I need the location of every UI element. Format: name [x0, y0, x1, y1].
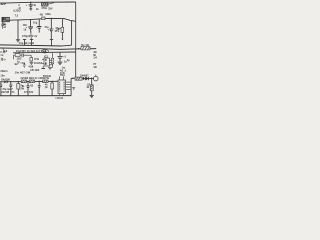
node junction x52: [51, 81, 52, 82]
node junction net A x18: [17, 20, 18, 21]
svg-text:47n 63V: 47n 63V: [24, 91, 34, 94]
svg-text:10µ 4Ω 1n Ω: 10µ 4Ω 1n Ω: [19, 42, 34, 45]
ground GND4: [58, 61, 63, 63]
wire rail A right segment: [62, 44, 72, 47]
wire bus rail C: [13, 51, 76, 54]
svg-text:TDA: TDA: [60, 74, 65, 77]
svg-text:10µ: 10µ: [33, 22, 38, 25]
capacitor C8 in Zobel row: [21, 53, 23, 57]
diode D1 on bottom wire: [4, 80, 7, 83]
svg-text:4k7: 4k7: [56, 28, 61, 31]
wire vertical to ground from net A: [17, 20, 19, 39]
wire vertical x71 right of IC1: [70, 78, 72, 95]
resistor R12 vertical in x52.6 wire: [52, 58, 54, 64]
svg-text:2x5Ω6 3Ω9 2x 1N41: 2x5Ω6 3Ω9 2x 1N41: [21, 77, 45, 80]
resistor R3 in Zobel row: [13, 54, 15, 56]
wire to connector: [89, 77, 94, 79]
wire vertical x52.6 feeding IC2: [52, 52, 54, 68]
ground GND1: [16, 39, 20, 41]
capacitor C1 from top bus: [30, 2, 32, 4]
svg-text:100: 100: [23, 24, 28, 27]
capacitor C11 left edge down: [0, 82, 2, 85]
svg-text:47n: 47n: [10, 91, 15, 94]
wire main horizontal net A: [10, 18, 76, 21]
svg-text:47Ω: 47Ω: [44, 77, 49, 80]
wire stub bus B down left: [2, 48, 4, 50]
wire pins right of IC2: [50, 59, 53, 61]
resistor R6 on bottom wire: [21, 80, 26, 83]
resistor R11 vertical hatched: [90, 85, 93, 91]
arrow terminal below R2: [61, 39, 63, 41]
resistor R5 vertical: [17, 82, 19, 84]
wire down from junction: [91, 78, 93, 84]
svg-text:25V: 25V: [48, 8, 53, 10]
wire bus rail A: [0, 45, 62, 46]
svg-text:10n 4Ω7 /2W: 10n 4Ω7 /2W: [15, 71, 31, 74]
wire stubs below IC1: [59, 94, 61, 96]
svg-text:1A: 1A: [43, 50, 46, 53]
svg-text:1/4: 1/4: [93, 57, 97, 60]
ground GND6: [90, 94, 94, 96]
diode D3: [83, 77, 86, 80]
svg-text:4n7: 4n7: [14, 63, 19, 66]
svg-text:7,5: 7,5: [15, 14, 19, 17]
ground GND5 small: [72, 87, 75, 89]
capacitor C10 x60: [59, 52, 61, 56]
wire output net: [71, 77, 75, 79]
capacitor C5 to rail: [30, 38, 33, 40]
module K1 dark box: [2, 17, 10, 22]
svg-text:(Ω: (Ω: [45, 87, 48, 89]
svg-text:4h: 4h: [45, 84, 48, 87]
svg-text:2Ω/1W: 2Ω/1W: [1, 92, 9, 94]
svg-text:10n/63: 10n/63: [34, 62, 43, 65]
wire top supply bus: [0, 2, 76, 3]
scan speckle texture: [2, 0, 98, 99]
svg-text:1N4148: 1N4148: [1, 78, 11, 81]
connector K2 circle: [94, 76, 99, 81]
svg-text:0µ47: 0µ47: [7, 88, 13, 91]
capacitor C12: [10, 82, 12, 85]
svg-text:4µ: 4µ: [67, 59, 70, 62]
wire bottom bus: [0, 95, 71, 97]
svg-text:4Ω: 4Ω: [40, 14, 43, 17]
resistor R1 hatched box on top: [41, 3, 48, 6]
wire vertical x51 with capacitor C7: [50, 19, 52, 29]
wire stubs above IC1: [59, 76, 61, 80]
svg-text:1n: 1n: [0, 54, 3, 57]
wire after R10: [81, 78, 84, 80]
node junction x18.3: [18, 81, 19, 82]
node junction net A x64: [63, 18, 64, 19]
svg-text:0,22Ω: 0,22Ω: [13, 10, 20, 13]
svg-text:=41011: =41011: [55, 97, 64, 100]
capacitor C13: [27, 81, 29, 85]
svg-text:100n: 100n: [45, 13, 51, 16]
svg-text:22k/m: 22k/m: [0, 70, 7, 73]
resistor R2 vertical: [61, 19, 63, 28]
ground GND3: [49, 66, 51, 68]
svg-text:1N4007: 1N4007: [80, 74, 89, 77]
svg-text:12V: 12V: [0, 2, 7, 6]
capacitor C2 electrolytic: [29, 20, 31, 27]
resistor R4 vertical: [30, 55, 32, 57]
ground GND2: [29, 61, 33, 63]
fuse F1 oval: [41, 50, 48, 53]
wire C2 down to bus: [30, 32, 33, 39]
capacitor C14: [38, 81, 40, 85]
wire below R11: [91, 91, 93, 95]
wire stub above K2: [95, 75, 97, 77]
svg-text:1n: 1n: [64, 61, 67, 64]
node junction x39.2: [39, 81, 40, 82]
wire pins left of IC2: [42, 59, 44, 61]
wire pins right of IC1: [66, 81, 72, 83]
svg-text:Ω/: Ω/: [87, 87, 90, 89]
svg-text:10n: 10n: [0, 74, 5, 77]
wire vertical x71: [71, 21, 73, 46]
diode D2 below IC2: [42, 66, 44, 68]
wire long vertical x75.6: [75, 21, 77, 78]
node junction rail B x78: [78, 48, 80, 50]
svg-text:IC2: IC2: [44, 55, 49, 58]
svg-text:47Ω: 47Ω: [34, 58, 39, 61]
node junction x28: [27, 81, 28, 82]
capacitor C9 left edge: [0, 58, 2, 61]
capacitor C15 series in net A: [42, 17, 45, 20]
capacitor C4 to rail: [23, 38, 26, 40]
capacitor C6 to rail: [50, 39, 53, 41]
wire stub down from Zobel: [12, 55, 14, 59]
wire bus rail B: [0, 48, 96, 49]
svg-text:4Ω: 4Ω: [93, 51, 96, 54]
node junction on net A: [30, 19, 31, 20]
transistor T1 below module: [2, 22, 4, 29]
ground GND7 small: [23, 64, 26, 66]
node junction x11: [10, 81, 11, 82]
svg-text:470n: 470n: [41, 7, 47, 10]
node junction top bus: [30, 2, 31, 3]
capacitor C3 electrolytic: [38, 19, 40, 27]
resistor R10 hatched: [75, 77, 82, 80]
resistor Re in rail B: [81, 47, 90, 50]
svg-text:1Ω: 1Ω: [87, 84, 90, 86]
svg-text:1m: 1m: [62, 67, 66, 69]
node junction x72.8: [72, 78, 73, 79]
svg-text:=1m: =1m: [20, 63, 25, 65]
svg-text:4Ω: 4Ω: [93, 66, 96, 69]
svg-text:AB 4Ω2: AB 4Ω2: [30, 69, 40, 72]
svg-text:Re 4Ω: Re 4Ω: [81, 44, 88, 47]
resistor R9 vertical at x52: [51, 81, 53, 83]
IC2 driver box: [44, 58, 50, 66]
resistor R7 on bottom wire: [29, 80, 34, 83]
resistor R8 on bottom wire: [43, 80, 48, 83]
wire bottom main: [0, 80, 58, 83]
wire right vertical from top bus: [75, 2, 77, 21]
svg-text:4n: 4n: [33, 4, 36, 7]
IC1 power amp box: [58, 80, 66, 94]
svg-text:470µ/40V 2x: 470µ/40V 2x: [22, 35, 38, 38]
diode D4: [86, 77, 89, 80]
node junction x91.5: [91, 78, 93, 80]
